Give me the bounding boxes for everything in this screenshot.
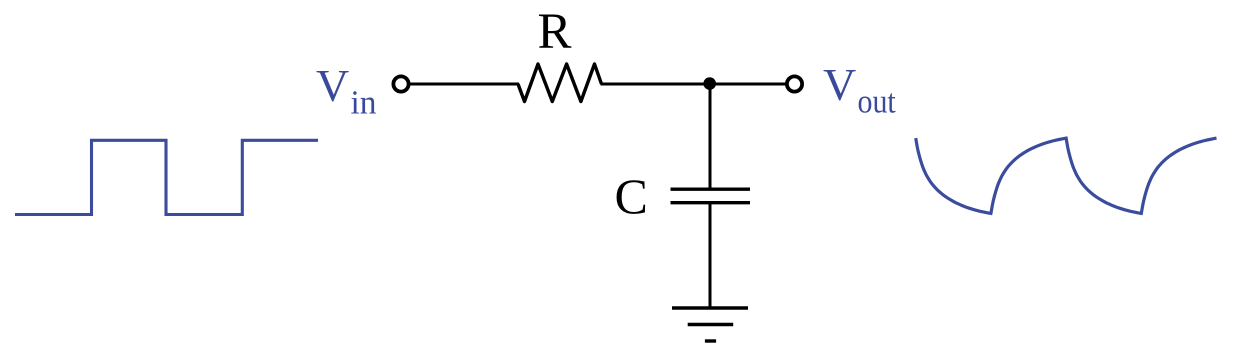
svg-text:out: out xyxy=(858,84,897,121)
input terminal (open circle) xyxy=(393,76,408,91)
svg-text:R: R xyxy=(538,4,572,60)
wire: node down to capacitor xyxy=(709,84,712,189)
wire: resistor to node xyxy=(601,83,711,86)
svg-text:V: V xyxy=(316,60,349,111)
ground top bar xyxy=(672,306,748,309)
wire: capacitor to ground xyxy=(709,203,712,308)
input square-wave signal xyxy=(15,140,318,214)
svg-text:C: C xyxy=(615,168,648,224)
ground bottom bar xyxy=(705,339,716,342)
output exponential waveform xyxy=(916,138,1217,213)
capacitor C top plate xyxy=(671,187,751,190)
node junction dot xyxy=(703,77,716,90)
wire: input terminal to resistor xyxy=(410,83,520,86)
resistor R xyxy=(518,64,602,102)
svg-text:V: V xyxy=(823,59,856,110)
wire: node to output terminal xyxy=(710,83,788,86)
svg-text:in: in xyxy=(351,85,377,122)
output terminal (open circle) xyxy=(787,76,802,91)
ground middle bar xyxy=(688,323,734,326)
capacitor C bottom plate xyxy=(671,201,751,204)
